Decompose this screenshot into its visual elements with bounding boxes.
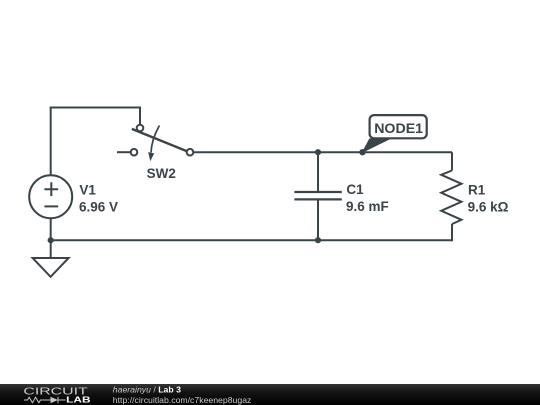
footer bar — [0, 384, 540, 405]
switch SW2 blade — [132, 129, 187, 151]
capacitor C1 plates — [294, 192, 341, 199]
switch SW2 left throw terminal — [131, 149, 138, 156]
wire: top horizontal run — [50, 107, 140, 109]
wire: C1 bottom lead — [317, 200, 319, 240]
svg-text:NODE1: NODE1 — [374, 121, 423, 137]
wire: unconnected throw stub — [117, 151, 131, 153]
svg-text:http://circuitlab.com/c7keenep: http://circuitlab.com/c7keenep8ugaz — [113, 395, 252, 405]
junction dot at V1/ground — [48, 237, 54, 243]
switch SW2 common terminal — [137, 125, 144, 132]
svg-text:9.6 mF: 9.6 mF — [346, 199, 389, 214]
ground — [33, 240, 69, 277]
node NODE1 junction dot — [359, 149, 365, 155]
voltage source V1 body — [29, 175, 72, 218]
svg-text:9.6 kΩ: 9.6 kΩ — [468, 200, 509, 215]
svg-text:SW2: SW2 — [147, 166, 176, 181]
wire: drop to SW2 common terminal — [139, 107, 141, 125]
svg-text:V1: V1 — [79, 182, 96, 197]
wire: R1 top lead — [451, 152, 453, 170]
junction dot C1 top — [315, 149, 321, 155]
wire: bottom rail — [51, 239, 452, 241]
logo resistor-diode squiggle — [24, 397, 66, 403]
svg-text:C1: C1 — [346, 182, 364, 197]
svg-text:haerainyu / Lab 3: haerainyu / Lab 3 — [113, 385, 181, 395]
wire: SW2 throw to R1 top (node wire) — [193, 151, 452, 153]
resistor R1 zigzag — [441, 171, 461, 225]
wire: V1 bottom lead — [50, 218, 52, 240]
V1 plus sign — [44, 182, 58, 196]
V1 minus sign — [44, 205, 58, 207]
svg-text:R1: R1 — [468, 182, 486, 197]
wire: R1 bottom lead — [451, 224, 453, 241]
junction dot C1 bottom — [315, 237, 321, 243]
NODE1 callout tail — [362, 139, 392, 154]
svg-text:LAB: LAB — [66, 394, 90, 404]
NODE1 callout box — [370, 115, 427, 138]
switch SW2 actuation arrow — [148, 126, 159, 162]
switch SW2 right throw terminal — [187, 149, 194, 156]
wire: V1 top lead up to corner — [50, 108, 52, 176]
wire: C1 top lead — [317, 152, 319, 191]
svg-text:6.96 V: 6.96 V — [79, 200, 118, 215]
